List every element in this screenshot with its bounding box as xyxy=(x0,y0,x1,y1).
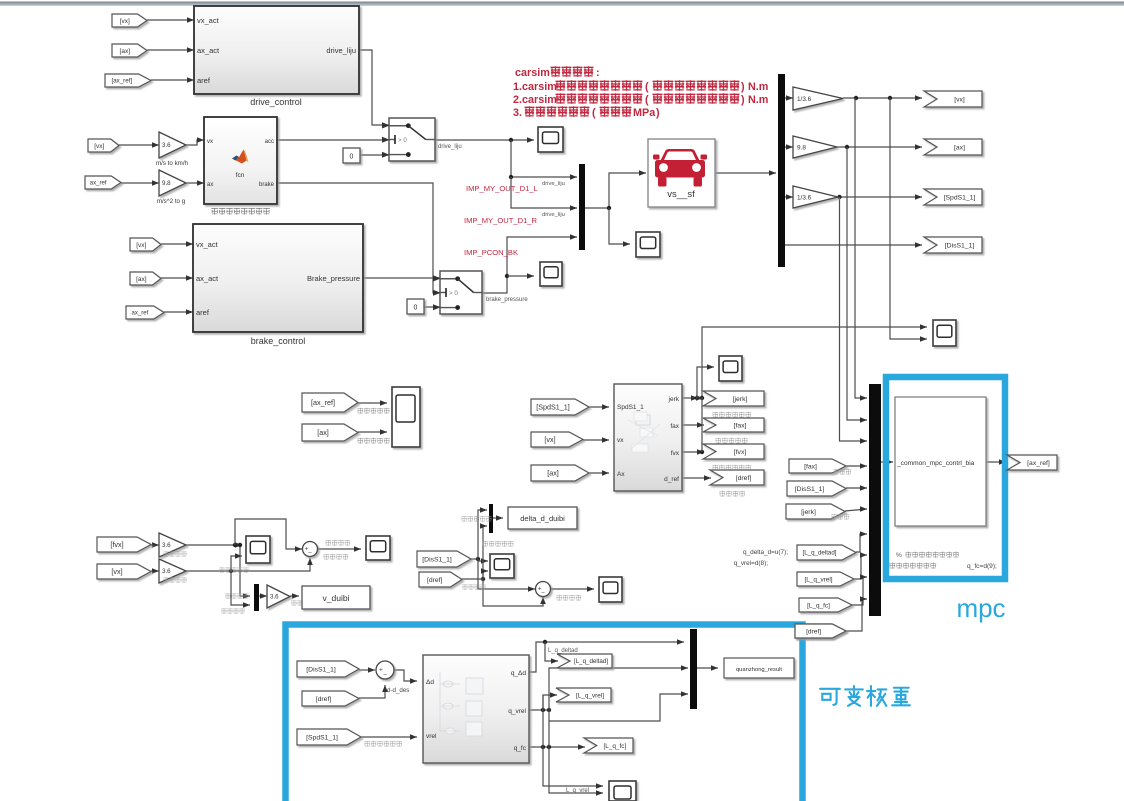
wire d_ref out to goto [dref] xyxy=(682,477,711,479)
wire brake_pressure to scope S3 xyxy=(507,275,534,277)
wire [L_q_vrel] to mpc mux xyxy=(854,555,867,579)
svg-text:v_duibi: v_duibi xyxy=(323,593,350,603)
svg-text:MPa: MPa xyxy=(633,107,656,119)
from tag [L_q_fc] xyxy=(799,598,852,612)
wire jerk branch to scope S7 xyxy=(697,367,714,398)
wire [L_q_fc] to mpc mux xyxy=(852,577,867,605)
junction q_fc a xyxy=(541,745,545,749)
wire [ax] to drive_control ax_act xyxy=(147,49,194,51)
wire [ax_ref] to drive_control aref xyxy=(151,79,194,81)
gain 1/3.6 a xyxy=(793,87,843,110)
svg-text:[dref]: [dref] xyxy=(736,475,752,482)
goto tag [L_q_vrel] 2 xyxy=(556,688,611,702)
goto tag [fax] xyxy=(703,418,764,432)
wire [fvx] to gain 3.6 d xyxy=(151,544,159,546)
switch SW1 xyxy=(389,118,435,161)
scope S5 xyxy=(933,320,956,346)
junction vx b xyxy=(888,96,892,100)
subsystem SpdS1_1 preview block xyxy=(614,384,682,491)
wire q_vrel up to mux M5 in2 xyxy=(549,668,688,710)
gain 9.8 b xyxy=(793,136,837,158)
svg-text:9.8: 9.8 xyxy=(162,180,171,187)
svg-text:): ) xyxy=(656,107,660,119)
from tag [L_q_deltad] xyxy=(797,545,856,560)
wire [SpdS1_1] to weights block vrel xyxy=(361,736,417,738)
svg-text:q_delta_d=u(7);: q_delta_d=u(7); xyxy=(743,549,788,556)
label jian ju wu cha xyxy=(556,595,581,601)
svg-text:[vx]: [vx] xyxy=(94,143,104,150)
wire jerk out to goto [jerk] xyxy=(682,397,698,399)
wire gain 1/3.6 c to goto [SpdS1_1] xyxy=(838,196,922,198)
goto tag [DisS1_1] xyxy=(924,237,982,253)
wire down to scope S12 in2 xyxy=(549,721,603,793)
svg-text:m/s^2 to g: m/s^2 to g xyxy=(157,198,186,205)
wire [vx] to brake_control vx_act xyxy=(161,243,193,245)
wire vertical ax branch to mpc mux in2 xyxy=(847,147,867,420)
svg-text:N.m: N.m xyxy=(748,81,768,93)
svg-text:%: % xyxy=(896,552,902,559)
from tag [ax] 1 xyxy=(112,44,147,57)
svg-text:IMP_PCON_BK: IMP_PCON_BK xyxy=(464,248,518,257)
wire mpc mux to common block xyxy=(881,461,893,463)
label qian che xiang dui su du xyxy=(712,465,751,471)
wire [ax] to scope S6 in2 xyxy=(358,431,387,433)
wire [jerk] to mpc mux xyxy=(845,509,867,511)
svg-text::: : xyxy=(596,67,600,79)
svg-text:drive_liju: drive_liju xyxy=(542,181,565,187)
scope S9 xyxy=(366,536,390,560)
junction fvx xyxy=(700,450,704,454)
junction ax xyxy=(845,145,849,149)
wire gain 9.8 b to goto [ax] xyxy=(837,146,922,148)
wire switch SW2 output brake_pressure to mux M1 in3 xyxy=(482,237,577,293)
svg-text:0: 0 xyxy=(414,305,418,312)
svg-text:m/s to km/h: m/s to km/h xyxy=(156,160,189,167)
svg-text:d_ref: d_ref xyxy=(664,476,679,483)
svg-text:[ax_ref]: [ax_ref] xyxy=(111,78,132,85)
wire sum SUM1 to scope S9 xyxy=(317,548,361,550)
wire [dref] to mpc mux xyxy=(846,599,867,631)
wire [DisS1_1] to junction xyxy=(471,558,478,560)
car icon xyxy=(653,149,707,187)
wire gain d to scope S8 in1 xyxy=(186,544,242,546)
scope S3 xyxy=(540,262,562,286)
svg-text:Brake_pressure: Brake_pressure xyxy=(307,274,360,283)
scope S8 two-input xyxy=(246,536,270,563)
sum SUM1 xyxy=(303,542,318,557)
junction q_vrel a xyxy=(541,708,545,712)
mux M4 xyxy=(489,504,493,533)
from tag [dref] 3 xyxy=(795,624,846,638)
wire [ax_ref] to scope S6 in1 xyxy=(358,402,387,404)
to-workspace quanzhong_result xyxy=(724,658,794,678)
label dref distance xyxy=(462,584,485,589)
subsystem drive_control xyxy=(194,6,359,94)
label qianche minus ziche xyxy=(364,741,402,747)
from tag [fvx] xyxy=(97,537,151,552)
goto tag [fvx] xyxy=(703,444,764,459)
svg-text:[vx]: [vx] xyxy=(111,567,122,576)
label che su wu cha above xyxy=(325,540,350,546)
MATLAB function fcn block xyxy=(204,117,277,204)
wire common block to goto [ax_ref] xyxy=(986,461,1006,463)
mpc highlight box xyxy=(886,377,1005,579)
svg-text:[vx]: [vx] xyxy=(120,18,130,25)
label shi ji che jian ju xyxy=(482,541,513,547)
svg-text:drive_liju: drive_liju xyxy=(542,212,565,218)
wire demux M2 to goto [DisS1_1] xyxy=(785,244,922,246)
wire constant 0 to switch SW2 in3 xyxy=(424,306,440,308)
svg-text:3.6: 3.6 xyxy=(162,542,171,549)
svg-text:d-d_des: d-d_des xyxy=(387,687,409,694)
svg-text:3.6: 3.6 xyxy=(162,142,171,149)
wire to goto [L_q_deltad] xyxy=(545,642,558,661)
svg-text:1/3.6: 1/3.6 xyxy=(797,96,812,103)
svg-text:quanzhong_result: quanzhong_result xyxy=(736,667,782,673)
svg-text:[SpdS1_1]: [SpdS1_1] xyxy=(306,734,338,741)
svg-text:vx: vx xyxy=(207,139,213,145)
from tag [dref] overlap xyxy=(795,624,846,638)
gain 1/3.6 c xyxy=(793,186,838,208)
junction spd xyxy=(837,195,841,199)
svg-text:[SpdS1_1]: [SpdS1_1] xyxy=(536,403,570,412)
wire constant 0 to switch SW1 in3 xyxy=(360,154,389,156)
wire dref to mux M4 in2 xyxy=(462,526,487,579)
svg-text:[fvx]: [fvx] xyxy=(110,540,123,549)
wire jerk-fvx vertical xyxy=(701,398,703,452)
wire to goto [L_q_vrel] xyxy=(543,695,557,710)
label qianche speed d xyxy=(163,551,186,556)
svg-text:−: − xyxy=(541,590,545,597)
svg-text:2.carsim: 2.carsim xyxy=(513,94,557,106)
wire mux M3 to gain 3.6 f xyxy=(259,595,267,597)
svg-text:q_vrel: q_vrel xyxy=(508,708,526,715)
svg-text:(: ( xyxy=(645,94,649,106)
svg-text:ax_act: ax_act xyxy=(196,274,219,283)
svg-text:jerk: jerk xyxy=(668,396,680,403)
svg-text:[dref]: [dref] xyxy=(427,577,443,584)
svg-text:[SpdS1_1]: [SpdS1_1] xyxy=(944,194,976,201)
from tag [SpdS1_1] 2 xyxy=(531,399,589,415)
svg-text:1/3.6: 1/3.6 xyxy=(797,194,812,201)
svg-text:(: ( xyxy=(645,81,649,93)
goto tag [vx] xyxy=(924,91,982,107)
wire mux M5 to quanzhong_result xyxy=(697,667,718,669)
goto tag [ax_ref] xyxy=(1007,455,1057,470)
scope S1 xyxy=(538,127,563,152)
wire demux M2 to gain 1/3.6 c xyxy=(785,196,793,198)
svg-text:SpdS1_1: SpdS1_1 xyxy=(617,404,644,411)
wire jerk to goto tag xyxy=(702,397,703,399)
wire [ax] to block in3 xyxy=(589,472,609,474)
svg-text:−: − xyxy=(308,550,312,557)
wire gain 9.8 to fcn ax xyxy=(184,182,204,184)
svg-text:aref: aref xyxy=(197,76,211,85)
from tag [vx] 5 xyxy=(97,564,151,579)
wire vertical spd branch to mpc mux in3 xyxy=(840,197,868,441)
svg-text:> 0: > 0 xyxy=(449,290,458,297)
wire branch to mux M3 in1 xyxy=(240,545,250,596)
arrow into SW2 in1 xyxy=(433,276,440,282)
subsystem weights preview block xyxy=(423,655,529,763)
label jerk chinese xyxy=(831,514,849,520)
wire [dref] to sum SUM3 bottom xyxy=(359,685,385,698)
demux M2 xyxy=(778,74,785,267)
sum SUM3 xyxy=(376,661,394,679)
wire fvx out to goto [fvx] xyxy=(682,451,704,453)
label qi wang ju li xyxy=(719,491,745,497)
gain 3.6 e xyxy=(159,559,186,583)
to-workspace v_duibi xyxy=(302,586,370,609)
gain 3.6 d xyxy=(159,533,186,557)
wire drive_liju to mux M1 in2 xyxy=(511,177,577,208)
svg-text:[ax]: [ax] xyxy=(954,144,965,151)
junction vx a xyxy=(854,96,858,100)
wire [vx] to gain 3.6 xyxy=(119,144,159,146)
svg-text:[vx]: [vx] xyxy=(954,96,965,103)
wire [ax] to brake_control ax_act xyxy=(161,277,193,279)
junction q_vrel b xyxy=(547,708,551,712)
svg-text:q_vrel=d(8);: q_vrel=d(8); xyxy=(734,560,769,567)
arrow into SW1 in2 xyxy=(382,137,389,143)
wire q_dd up xyxy=(529,642,684,672)
wire [L_q_deltad] to mpc mux xyxy=(856,534,867,552)
from tag [DisS1_1] 5 xyxy=(297,661,359,677)
svg-text:mpc: mpc xyxy=(956,593,1005,623)
svg-text:ax: ax xyxy=(207,182,213,188)
goto tag [L_q_deltad] 2 xyxy=(557,654,612,668)
label ziche su du xyxy=(221,608,244,613)
svg-text:aref: aref xyxy=(196,308,210,317)
wire fcn brake to switch SW2 in2 xyxy=(277,183,440,293)
svg-text:_common_mpc_contrl_bia: _common_mpc_contrl_bia xyxy=(896,460,975,467)
junction before vs_sf xyxy=(607,206,611,210)
label fax chinese xyxy=(833,469,851,475)
svg-text:> 0: > 0 xyxy=(398,137,407,144)
wire jerk branch up to scope S5 in1 xyxy=(702,327,927,398)
svg-text:fvx: fvx xyxy=(671,450,680,457)
scope S7 xyxy=(719,356,742,381)
wire [vx] to block in2 xyxy=(583,439,609,441)
svg-text:q_fc=d(9);: q_fc=d(9); xyxy=(967,563,997,570)
top window edge bar xyxy=(0,2,1124,7)
gain 9.8 m/s^2 to g xyxy=(159,170,186,196)
wire switch SW1 output to scope S1 xyxy=(435,139,534,141)
svg-text:IMP_MY_OUT_D1_L: IMP_MY_OUT_D1_L xyxy=(466,184,538,193)
arrow into SW2 in2 xyxy=(433,290,440,296)
label expected accel xyxy=(357,408,389,414)
wire mux M1 to vs_sf xyxy=(585,173,646,208)
from tag [fax] 2 xyxy=(789,459,846,473)
vehicle plant block vs_sf xyxy=(648,139,715,207)
svg-text:vx_act: vx_act xyxy=(196,240,219,249)
svg-text:[DisS1_1]: [DisS1_1] xyxy=(306,666,336,673)
svg-text:[jerk]: [jerk] xyxy=(801,509,816,516)
junction vx e xyxy=(229,569,233,573)
wire vs_sf output to demux M2 xyxy=(715,172,776,174)
label qi wang che jian ju xyxy=(461,516,491,522)
wire q_vrel down loop to mux M5 in3 xyxy=(549,694,688,721)
svg-text:L_q_deltad: L_q_deltad xyxy=(548,648,578,654)
from tag [ax_ref] 4 xyxy=(302,393,358,412)
from tag [ax_ref] 1 xyxy=(105,74,151,87)
svg-text:3.6: 3.6 xyxy=(162,568,171,575)
svg-text:ax_ref: ax_ref xyxy=(90,181,107,187)
mpc mux M6 xyxy=(869,384,881,616)
svg-text:Ax: Ax xyxy=(617,471,625,478)
svg-text:1.carsim: 1.carsim xyxy=(513,81,557,93)
wire dis to scope S10 in1 xyxy=(478,559,488,561)
wire drive_control drive_liju to switch SW1 in1 xyxy=(359,50,389,125)
svg-text:[ax]: [ax] xyxy=(547,469,559,478)
from tag [ax] 4 xyxy=(531,465,589,481)
sum SUM2 xyxy=(536,582,551,597)
svg-text:−: − xyxy=(383,672,387,679)
label qian che jia su du xyxy=(715,438,747,444)
svg-text:[fax]: [fax] xyxy=(734,422,747,429)
wire [DisS1_1] to mpc mux xyxy=(846,487,867,489)
wire vertical vx branch to scope S5 in2 xyxy=(890,98,927,339)
svg-text:[ax]: [ax] xyxy=(120,48,131,55)
label under fcn block xyxy=(211,208,269,215)
svg-text:delta_d_duibi: delta_d_duibi xyxy=(520,514,565,523)
svg-text:[dref]: [dref] xyxy=(316,696,332,703)
svg-text:drive_liju: drive_liju xyxy=(326,46,356,55)
wire [dref] junction xyxy=(481,577,485,581)
wire fcn acc to switch SW1 in2 xyxy=(277,139,389,141)
gain 3.6 m/s to km/h xyxy=(159,132,186,158)
wire [fax] to mpc mux xyxy=(846,465,867,467)
wire dref down to sum SUM2 bottom xyxy=(483,579,543,606)
wire sum SUM3 to weights block xyxy=(394,670,417,681)
junction drive_liju xyxy=(509,138,513,142)
junction q_dd xyxy=(543,640,547,644)
wire fax out to goto [fax] xyxy=(682,424,704,426)
svg-text:[ax]: [ax] xyxy=(317,428,329,437)
svg-text:IMP_MY_OUT_D1_R: IMP_MY_OUT_D1_R xyxy=(464,216,538,225)
from tag [vx] 3 xyxy=(130,238,161,251)
wire [SpdS1_1] to block in1 xyxy=(589,406,609,408)
svg-text:vrel: vrel xyxy=(426,733,437,740)
wire [DisS1_1] to sum SUM3 xyxy=(359,669,375,671)
wire [vx] to gain 3.6 e xyxy=(151,570,159,572)
wire feedback up to sum SUM1 xyxy=(235,519,302,549)
wire dref to scope S10 in2 xyxy=(483,571,488,579)
label che su wu cha f xyxy=(291,600,314,605)
svg-text:[jerk]: [jerk] xyxy=(733,396,748,403)
goto tag [SpdS1_1] xyxy=(924,189,982,205)
subsystem brake_control xyxy=(193,224,363,332)
svg-text:): ) xyxy=(741,81,745,93)
svg-text:0: 0 xyxy=(350,154,354,161)
label actual accel xyxy=(357,438,389,444)
goto tag [jerk] xyxy=(703,391,764,406)
wire vertical vx branch to mpc mux in1 xyxy=(855,98,867,398)
wire [ax_ref] to gain 9.8 xyxy=(121,182,159,184)
kebian quanzhong highlight box xyxy=(286,625,803,801)
from tag [dref] 2 xyxy=(419,572,462,587)
junction jerk xyxy=(695,396,699,400)
wire q_vrel out xyxy=(529,709,549,711)
svg-text:ax_act: ax_act xyxy=(197,46,220,55)
gain 3.6 f xyxy=(267,585,290,608)
svg-text:vx: vx xyxy=(617,437,624,444)
scope S12 xyxy=(609,781,636,801)
svg-text:[DisS1_1]: [DisS1_1] xyxy=(795,486,825,493)
wire gain e right xyxy=(186,558,310,571)
svg-text:N.m: N.m xyxy=(748,94,768,106)
svg-text:q_Δd: q_Δd xyxy=(511,670,527,677)
from tag [vx] 1 xyxy=(112,14,147,27)
wire gain 3.6 to fcn vx xyxy=(184,140,204,145)
wire sum SUM2 to scope S11 xyxy=(550,588,594,590)
from tag [SpdS1_1] 3 xyxy=(297,729,361,745)
label ziche speed e xyxy=(163,577,186,582)
wire dis down to sum SUM2 xyxy=(478,559,535,589)
svg-text:[DisS1_1]: [DisS1_1] xyxy=(945,242,975,249)
from tag [vx] 4 xyxy=(531,432,583,447)
from tag [DisS1_1] 4 xyxy=(787,481,846,496)
from tag [vx] 2 xyxy=(88,139,119,152)
MATLAB logo xyxy=(232,150,249,164)
junction dis xyxy=(476,557,480,561)
mux M3 xyxy=(254,584,259,611)
wire down to scope S12 in1 xyxy=(543,695,603,786)
label ziche su du near scope xyxy=(219,567,248,572)
mux M1 xyxy=(579,164,585,250)
svg-text:3.: 3. xyxy=(513,107,522,119)
wire q_fc to goto [L_q_fc] xyxy=(529,746,585,748)
svg-text:brake: brake xyxy=(259,182,275,188)
goto tag [L_q_fc] 2 xyxy=(584,738,633,753)
wire brake_control Brake_pressure to switch SW2 in1 xyxy=(363,277,440,279)
svg-text:drive_liju: drive_liju xyxy=(438,144,462,150)
svg-text:brake_control: brake_control xyxy=(251,336,306,346)
svg-text:[DisS1_1]: [DisS1_1] xyxy=(422,556,452,563)
svg-text:q_fc: q_fc xyxy=(514,745,527,752)
svg-text:3.6: 3.6 xyxy=(270,594,279,601)
arrow into SW2 in3 xyxy=(433,305,440,311)
svg-text:drive_control: drive_control xyxy=(250,97,302,107)
goto tag [ax] xyxy=(924,139,982,155)
svg-text:[ax_ref]: [ax_ref] xyxy=(311,398,335,407)
arrow into SW1 in3 xyxy=(382,152,389,158)
junction brake_pressure xyxy=(505,274,509,278)
svg-text:vx_act: vx_act xyxy=(197,16,220,25)
wire gain f to v_duibi xyxy=(290,595,299,597)
svg-text:9.8: 9.8 xyxy=(797,144,806,151)
from tag [L_q_vrel] xyxy=(797,572,854,586)
svg-text:Δd: Δd xyxy=(426,679,434,686)
svg-text:): ) xyxy=(741,94,745,106)
wire demux M2 to gain 1/3.6 a xyxy=(785,97,793,99)
scope S6 two-input xyxy=(392,387,420,447)
wire drive_liju down to mux M1 in1 xyxy=(511,140,577,177)
svg-text:brake_pressure: brake_pressure xyxy=(486,297,528,303)
svg-text:(: ( xyxy=(592,107,596,119)
svg-text:[dref]: [dref] xyxy=(806,628,821,635)
from tag [ax] 3 xyxy=(302,424,358,441)
arrow into SW1 in1 xyxy=(382,123,389,129)
scope S10 two-input xyxy=(490,554,514,578)
svg-text:carsim: carsim xyxy=(515,67,550,79)
constant 0 block 1 xyxy=(343,148,360,163)
svg-text:[vx]: [vx] xyxy=(136,242,146,249)
svg-text:fax: fax xyxy=(670,423,679,430)
svg-text:[fvx]: [fvx] xyxy=(734,449,747,456)
text kebian quanzhong xyxy=(820,686,910,706)
wire to scope S4 xyxy=(609,208,630,244)
